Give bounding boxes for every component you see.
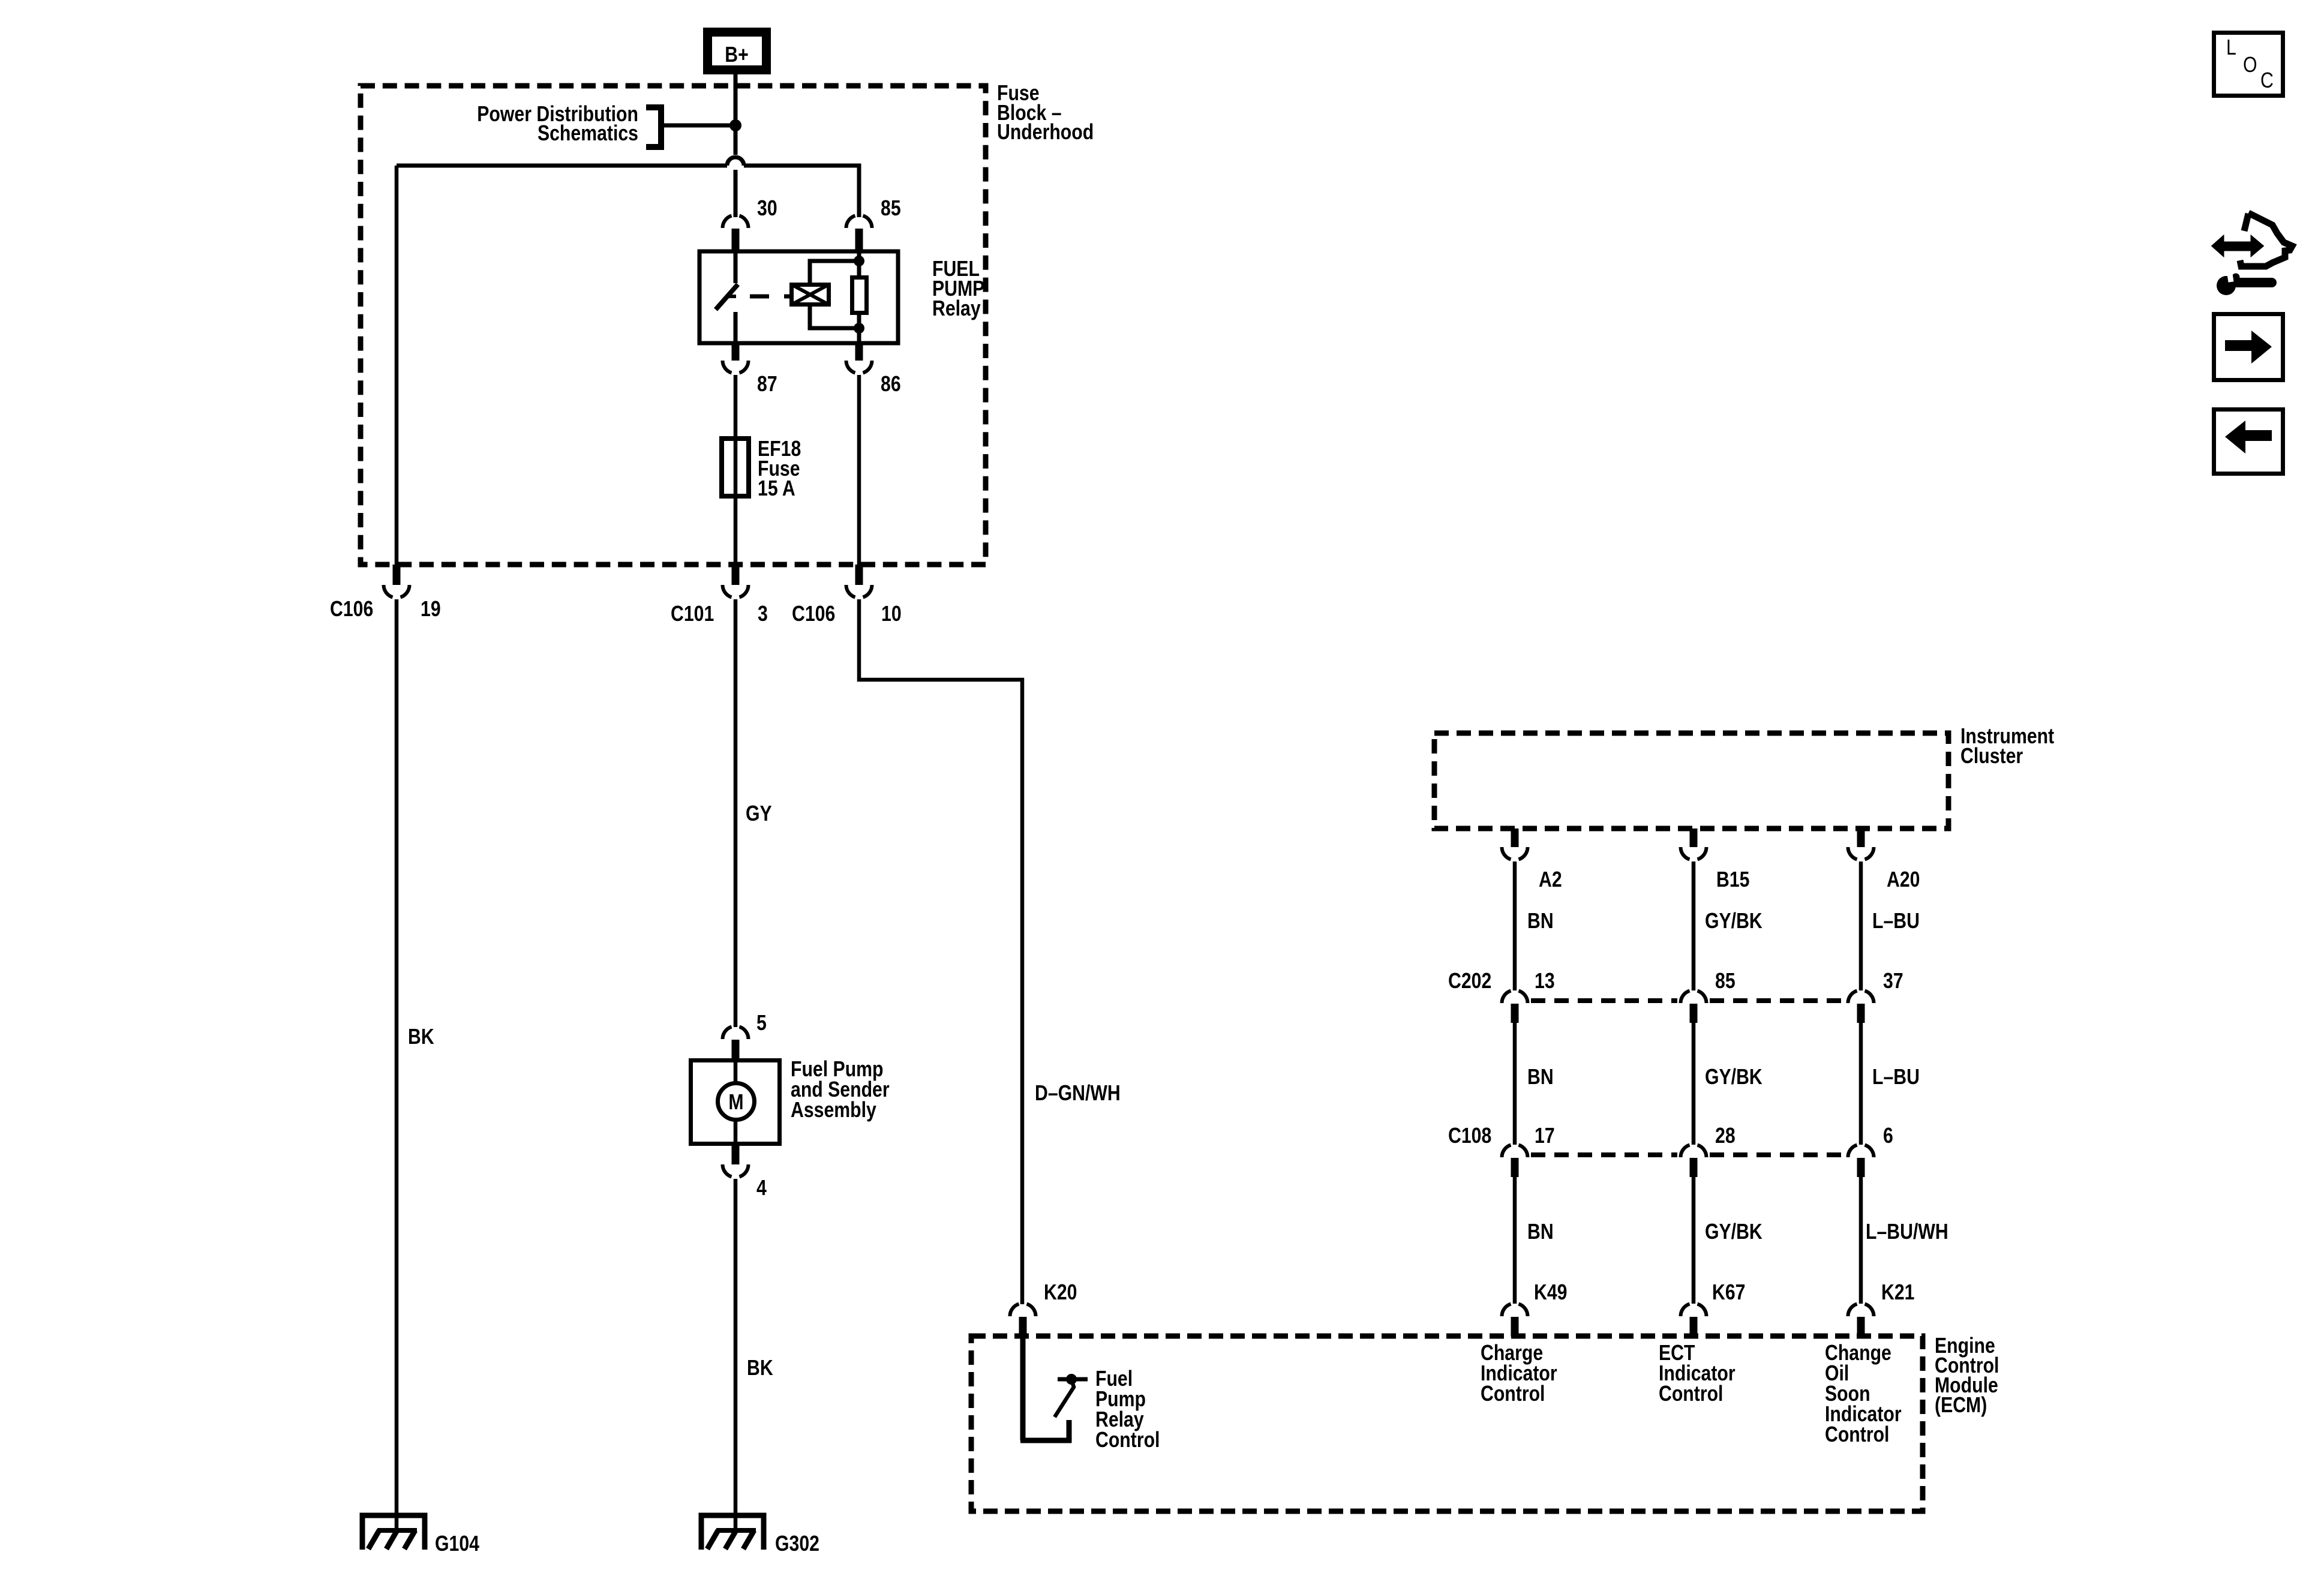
wire B+ down to relay pin 30 [734, 74, 738, 217]
svg-text:A20: A20 [1887, 868, 1920, 892]
svg-text:Control: Control [1825, 1423, 1889, 1447]
terminal 86 connector [846, 343, 872, 373]
junction dot B+ node [729, 119, 741, 131]
svg-text:K67: K67 [1712, 1281, 1745, 1305]
change oil soon indicator control label [1825, 1341, 1902, 1447]
label C106 10 [792, 602, 902, 626]
fuel pump pin 5 connector [723, 1027, 749, 1059]
wire GY/BK cluster to C202-85 [1692, 861, 1696, 990]
connector C108 pin 6 [1848, 1145, 1874, 1178]
ground G104 [362, 1515, 425, 1550]
ECM fuel pump relay control driver [1020, 1337, 1088, 1443]
svg-text:L–BU: L–BU [1872, 909, 1920, 933]
wire D-GN/WH from C106-10 jog right and down to K20 [859, 599, 1022, 1304]
cluster pin A2 connector [1502, 828, 1528, 860]
ECM pin K20 connector [1010, 1304, 1036, 1337]
left branch wire down to C106 pin 19 [395, 166, 399, 566]
relay coil bottom loop wire [810, 307, 859, 328]
instrument cluster dashed box [1434, 733, 1948, 828]
ECT indicator control label [1659, 1341, 1736, 1406]
svg-text:O: O [2243, 53, 2257, 77]
svg-text:L–BU/WH: L–BU/WH [1866, 1220, 1948, 1244]
svg-text:G302: G302 [775, 1532, 819, 1556]
svg-text:10: 10 [881, 602, 902, 626]
connector C106 pin 19 [384, 565, 410, 598]
svg-text:86: 86 [881, 373, 901, 397]
relay label [932, 257, 984, 321]
svg-text:BN: BN [1527, 909, 1554, 933]
svg-text:85: 85 [881, 197, 901, 221]
wire BN C108 to K49 [1513, 1177, 1517, 1304]
svg-text:GY/BK: GY/BK [1705, 909, 1762, 933]
relay switch contact [716, 251, 738, 343]
svg-text:4: 4 [756, 1176, 767, 1200]
svg-text:K20: K20 [1044, 1281, 1077, 1305]
connector C108 pin 28 [1681, 1145, 1707, 1178]
svg-text:85: 85 [1715, 969, 1736, 993]
engine control module dashed box [971, 1336, 1923, 1511]
svg-text:C: C [2260, 69, 2274, 93]
svg-text:Control: Control [1095, 1428, 1160, 1452]
svg-text:B15: B15 [1716, 868, 1749, 892]
wire L-BU C202 to C108 [1859, 1023, 1863, 1145]
svg-text:Control: Control [1659, 1382, 1723, 1406]
svg-text:GY/BK: GY/BK [1705, 1220, 1762, 1244]
label C108 17 [1448, 1124, 1555, 1148]
fuse label [758, 437, 801, 501]
svg-text:C108: C108 [1448, 1124, 1491, 1148]
wire 85 pin to resistor [857, 251, 861, 343]
svg-text:Schematics: Schematics [538, 122, 638, 146]
connector C108 pin 17 [1502, 1145, 1528, 1178]
svg-text:13: 13 [1535, 969, 1555, 993]
svg-text:28: 28 [1715, 1124, 1736, 1148]
wire L-BU cluster to C202-37 [1859, 861, 1863, 990]
cluster pin B15 connector [1681, 828, 1707, 860]
connector C101 pin 3 [723, 565, 749, 598]
svg-text:6: 6 [1883, 1124, 1893, 1148]
service tool icon double arrow [2212, 236, 2263, 256]
svg-text:Control: Control [1481, 1382, 1545, 1406]
svg-text:17: 17 [1535, 1124, 1555, 1148]
fuel pump relay box [699, 251, 898, 343]
charge indicator control label [1481, 1341, 1557, 1406]
bracket to power distribution [646, 107, 661, 147]
horizontal bus wire to 85 with hop over B+ wire [397, 166, 859, 217]
wire L-BU/WH C108 to K21 [1859, 1177, 1863, 1304]
svg-text:K49: K49 [1534, 1281, 1567, 1305]
svg-text:15 A: 15 A [758, 477, 795, 501]
fuse EF18 [722, 439, 749, 496]
terminal 85 connector [846, 216, 872, 252]
wire bracket to junction [661, 124, 735, 128]
connector C106 pin 10 [846, 565, 872, 598]
wire hop arc [727, 157, 744, 166]
terminal 30 connector [723, 216, 749, 252]
connector C202 pin 85 [1681, 991, 1707, 1023]
connector C202 pin 37 [1848, 991, 1874, 1023]
instrument cluster label [1960, 725, 2054, 769]
wire BN cluster to C202-13 [1513, 861, 1517, 990]
svg-text:Relay: Relay [932, 297, 981, 321]
svg-text:A2: A2 [1539, 868, 1562, 892]
svg-text:(ECM): (ECM) [1935, 1394, 1987, 1418]
svg-text:L: L [2226, 36, 2236, 60]
fuel pump label [791, 1058, 890, 1122]
fuse block underhood dashed box [361, 86, 986, 565]
junction dot coil top [854, 256, 864, 266]
svg-text:Cluster: Cluster [1960, 745, 2023, 769]
label C202 13 [1448, 969, 1555, 993]
svg-text:19: 19 [421, 598, 441, 622]
ECM driver label [1095, 1367, 1160, 1452]
ECM pin K49 connector [1502, 1304, 1528, 1337]
ECM pin K21 connector [1848, 1304, 1874, 1337]
C202 inline connector dashed line [1531, 998, 1845, 1003]
svg-text:G104: G104 [435, 1532, 479, 1556]
svg-text:C106: C106 [792, 602, 835, 626]
wire GY from C101-3 to fuel pump pin 5 [734, 599, 738, 1027]
relay actuator dashed link [750, 295, 789, 299]
wire 86 down to C106 pin 10 [857, 375, 861, 566]
svg-text:87: 87 [757, 373, 777, 397]
label C101 3 [671, 602, 768, 626]
wire fuse to C101 pin 3 [734, 496, 738, 566]
svg-text:BK: BK [408, 1025, 434, 1049]
svg-text:Underhood: Underhood [997, 121, 1094, 145]
C108 inline connector dashed line [1531, 1152, 1845, 1157]
svg-text:M: M [728, 1091, 743, 1115]
relay coil top loop wire [810, 261, 859, 283]
svg-text:C202: C202 [1448, 969, 1491, 993]
wire 87 to fuse EF18 [734, 375, 738, 439]
connector C202 pin 13 [1502, 991, 1528, 1023]
svg-text:37: 37 [1883, 969, 1903, 993]
junction dot coil bottom [854, 323, 864, 334]
wire GY/BK C202 to C108 [1692, 1023, 1696, 1145]
service tool icon hammer outline [2240, 213, 2292, 266]
svg-text:L–BU: L–BU [1872, 1065, 1920, 1089]
LOC reference box icon [2214, 33, 2283, 96]
svg-text:C101: C101 [671, 602, 714, 626]
relay resistor [852, 278, 867, 313]
ground G302 [701, 1515, 764, 1550]
svg-text:D–GN/WH: D–GN/WH [1035, 1082, 1121, 1106]
wire BN C202 to C108 [1513, 1023, 1517, 1145]
svg-text:30: 30 [757, 197, 777, 221]
ECM label [1935, 1334, 1999, 1418]
svg-text:BK: BK [747, 1356, 773, 1380]
B+ power symbol box [708, 32, 767, 70]
ECM pin K67 connector [1681, 1304, 1707, 1337]
svg-text:B+: B+ [725, 43, 748, 67]
left branch BK wire to ground G104 [395, 599, 399, 1533]
back arrow box icon [2214, 410, 2283, 474]
power distribution schematics label [477, 103, 638, 146]
svg-text:BN: BN [1527, 1220, 1554, 1244]
svg-text:GY: GY [746, 802, 772, 826]
label C106 19 [330, 598, 441, 622]
svg-text:5: 5 [756, 1011, 767, 1035]
svg-text:BN: BN [1527, 1065, 1554, 1089]
svg-text:C106: C106 [330, 598, 373, 622]
cluster pin A20 connector [1848, 828, 1874, 860]
relay coil box with X [791, 284, 829, 305]
svg-text:GY/BK: GY/BK [1705, 1065, 1762, 1089]
wire GY/BK C108 to K67 [1692, 1177, 1696, 1304]
forward arrow box icon [2214, 314, 2283, 380]
svg-text:3: 3 [758, 602, 768, 626]
svg-text:Assembly: Assembly [791, 1098, 876, 1122]
fuse block label [997, 82, 1094, 145]
BK wire pump to ground G302 [734, 1179, 738, 1533]
service tool icon wrench [2217, 270, 2272, 295]
fuel pump and sender assembly box [691, 1058, 780, 1146]
terminal 87 connector [723, 343, 749, 373]
svg-text:K21: K21 [1881, 1281, 1914, 1305]
fuel pump pin 4 connector [723, 1146, 749, 1177]
